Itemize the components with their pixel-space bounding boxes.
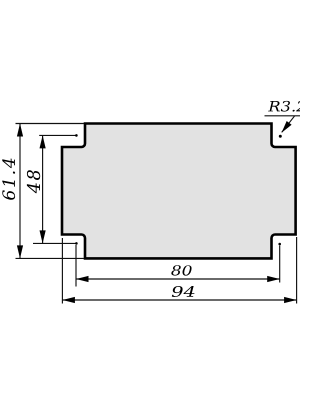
extension line top for 61.4	[16, 123, 85, 125]
arrow 94 left	[62, 297, 75, 303]
plate outline	[62, 124, 296, 259]
dimension line 80	[76, 278, 280, 280]
radius callout leader	[282, 116, 295, 133]
arrow 48 top	[40, 135, 46, 148]
radius callout R3.2 underline	[265, 115, 301, 117]
arrow 48 bottom	[40, 230, 46, 243]
extension line bottom for 48	[33, 242, 76, 244]
radius callout target dot	[279, 135, 282, 138]
extension line left for 94	[61, 238, 63, 304]
arrow 80 right	[267, 276, 280, 282]
extension line left for 80	[75, 245, 77, 287]
dimension line 94	[62, 299, 296, 301]
arrow 80 left	[76, 276, 89, 282]
label 80	[171, 265, 191, 275]
label 48	[27, 170, 40, 193]
label R3.2	[268, 101, 305, 112]
extension line right for 94	[296, 237, 298, 304]
arrow 61.4 top	[17, 124, 23, 137]
dot reference 48 bottom	[75, 242, 78, 245]
dot reference 48 top	[75, 134, 78, 137]
dot reference 80 right	[278, 243, 281, 246]
arrow 94 right	[284, 297, 297, 303]
dimension line 61.4	[19, 124, 21, 259]
arrow 61.4 bottom	[17, 245, 23, 258]
label 61.4	[2, 159, 15, 200]
extension line right for 80	[279, 246, 281, 283]
radius callout arrowhead	[282, 121, 292, 133]
dimension line 48	[42, 135, 44, 243]
extension line bottom for 61.4	[16, 257, 85, 259]
label 94	[172, 286, 195, 297]
extension line top for 48	[39, 134, 76, 136]
